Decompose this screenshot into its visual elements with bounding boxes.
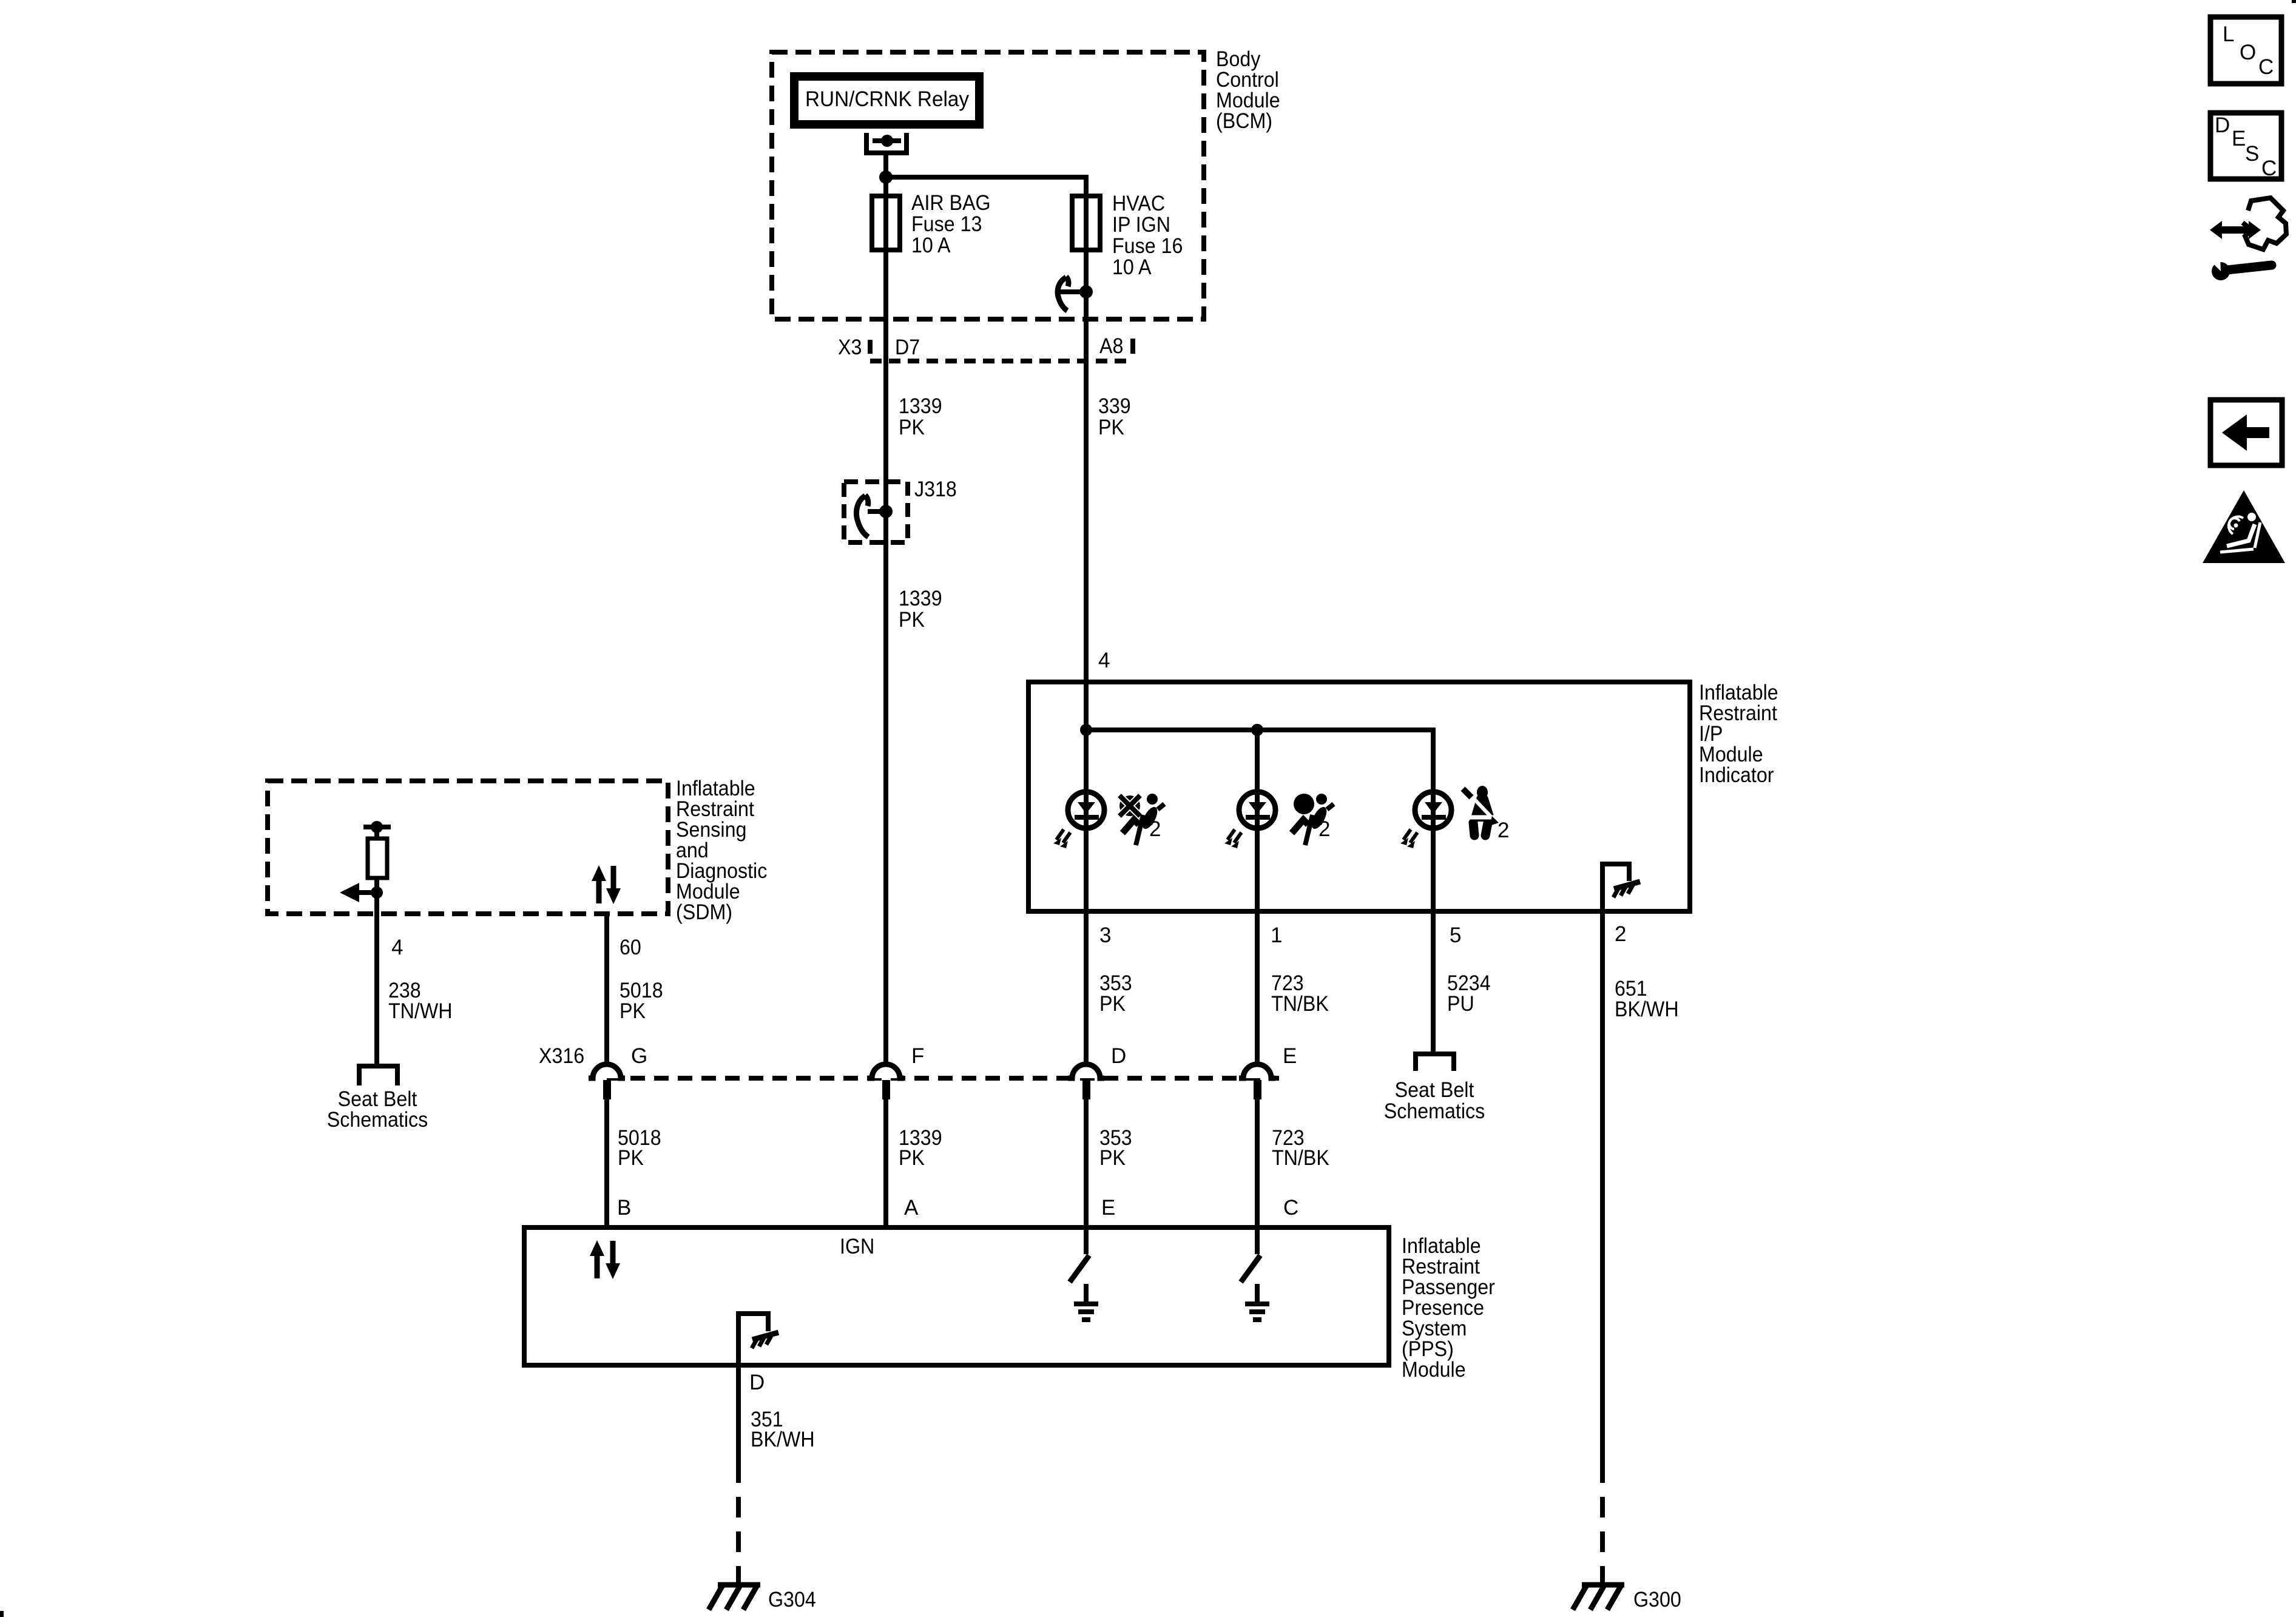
svg-text:TN/BK: TN/BK — [1272, 1146, 1329, 1170]
wire label 1339 PK (lower) — [899, 587, 942, 632]
switch (PPS pin C) — [1255, 1227, 1260, 1254]
icon warning triangle — [2203, 490, 2285, 563]
connector bulb G — [593, 1064, 621, 1078]
svg-text:Seat Belt: Seat Belt — [1395, 1078, 1474, 1102]
svg-text:X3: X3 — [838, 336, 862, 359]
svg-text:D: D — [1111, 1044, 1126, 1068]
svg-text:E: E — [2232, 127, 2246, 150]
wire LED2 branch — [1255, 730, 1260, 911]
icon connector-view outline — [2243, 198, 2286, 249]
svg-text:PK: PK — [899, 608, 925, 632]
wire label 1339 PK — [899, 394, 942, 439]
switch contact hooks (BCM) — [1059, 289, 1086, 294]
svg-text:PK: PK — [1099, 992, 1126, 1016]
svg-text:Indicator: Indicator — [1699, 763, 1774, 787]
fuse F13 AIR BAG — [872, 196, 900, 250]
connector X3 row — [868, 340, 873, 354]
svg-text:G304: G304 — [768, 1588, 816, 1612]
svg-text:D: D — [2215, 113, 2230, 137]
wire G to B — [604, 1099, 609, 1227]
svg-text:G300: G300 — [1633, 1588, 1681, 1612]
svg-text:J318: J318 — [914, 478, 957, 501]
svg-text:B: B — [617, 1196, 631, 1220]
svg-text:E: E — [1283, 1044, 1297, 1068]
module box PPS — [524, 1227, 1389, 1365]
svg-text:PK: PK — [618, 1146, 644, 1170]
wire relay to fuses — [883, 153, 888, 177]
wire labels row 2 — [618, 1126, 661, 1170]
serial data arrows (PPS) — [595, 1255, 600, 1278]
svg-text:4: 4 — [391, 936, 403, 959]
svg-text:2: 2 — [1615, 922, 1626, 946]
icon LOC — [2210, 17, 2281, 84]
icon back arrow — [2210, 400, 2282, 465]
resistor (SDM element) — [363, 825, 391, 829]
svg-text:O: O — [2240, 41, 2256, 64]
page mark bottom-left — [0, 1611, 4, 1617]
svg-text:F: F — [911, 1044, 924, 1068]
junction — [1251, 724, 1263, 736]
ground (PPS pin C) — [1255, 1284, 1260, 1303]
connector bulb E — [1243, 1064, 1271, 1078]
svg-text:L: L — [2223, 22, 2234, 46]
svg-text:10 A: 10 A — [911, 234, 951, 257]
svg-text:(BCM): (BCM) — [1216, 109, 1272, 133]
svg-text:10 A: 10 A — [1112, 255, 1152, 279]
LED D2 — [1239, 792, 1275, 828]
svg-text:Schematics: Schematics — [327, 1108, 428, 1132]
svg-text:BK/WH: BK/WH — [751, 1428, 815, 1451]
svg-text:2: 2 — [1149, 817, 1161, 841]
indicator icon airbag-off — [1119, 794, 1164, 845]
svg-text:60: 60 — [620, 936, 641, 959]
svg-text:PK: PK — [1099, 1146, 1126, 1170]
svg-text:Module: Module — [1402, 1358, 1466, 1382]
svg-text:AIR BAG: AIR BAG — [911, 191, 991, 215]
splice J318 — [844, 482, 908, 542]
svg-text:1: 1 — [1271, 923, 1282, 947]
fuse F16 HVAC — [1084, 196, 1089, 361]
page mark top-right — [2292, 0, 2296, 3]
svg-text:X316: X316 — [539, 1044, 584, 1068]
junction — [879, 170, 893, 184]
wire 5234 to off-page — [1431, 911, 1436, 1052]
serial data arrows (SDM) — [596, 880, 602, 903]
svg-text:TN/WH: TN/WH — [388, 999, 453, 1023]
wire F to A — [883, 1099, 888, 1227]
relay RUN/CRNK — [794, 76, 979, 124]
svg-text:2: 2 — [1497, 819, 1509, 842]
module label indicator — [1699, 681, 1778, 787]
wire label 339 PK — [1098, 394, 1131, 439]
wire 339 through indicator / LED1 branch — [1084, 361, 1089, 911]
wire 351 BK/WH — [736, 1365, 741, 1462]
svg-text:G: G — [631, 1044, 647, 1068]
ground G304 — [718, 1582, 760, 1588]
svg-text:D: D — [749, 1371, 765, 1394]
svg-text:Fuse 13: Fuse 13 — [911, 212, 982, 236]
wire D to E — [1084, 1099, 1089, 1227]
svg-text:HVAC: HVAC — [1112, 192, 1165, 215]
svg-text:1339: 1339 — [899, 587, 942, 610]
svg-text:PK: PK — [899, 416, 925, 439]
connector X316 row — [607, 1076, 1279, 1081]
wire label 238 TN/WH — [388, 979, 453, 1023]
svg-text:RUN/CRNK Relay: RUN/CRNK Relay — [805, 87, 969, 111]
pin letters above PPS — [617, 1196, 1298, 1220]
ground (indicator internal) — [1602, 864, 1629, 911]
svg-text:TN/BK: TN/BK — [1271, 992, 1329, 1016]
wire label 651 BK/WH — [1615, 977, 1679, 1021]
svg-text:PK: PK — [620, 999, 646, 1023]
bus wire — [1086, 730, 1433, 911]
wire 5018 upper — [604, 914, 609, 1064]
svg-text:(SDM): (SDM) — [676, 900, 732, 924]
wire 1339 PK to X316 F — [883, 361, 888, 1064]
module box BCM — [772, 52, 1204, 319]
module box SDM — [268, 781, 668, 914]
wire 651 to G300 — [1600, 911, 1605, 1462]
off-page connector seat belt (left) — [359, 1066, 397, 1085]
arrow (SDM output) — [359, 890, 377, 895]
svg-text:2: 2 — [1319, 817, 1330, 841]
svg-text:IGN: IGN — [840, 1235, 874, 1258]
ground G300 — [1582, 1582, 1624, 1588]
module label PPS — [1402, 1234, 1495, 1382]
svg-text:3: 3 — [1099, 923, 1111, 947]
icon connector-view arrow — [2210, 221, 2261, 239]
wire 238 TN/WH — [374, 893, 379, 1064]
svg-text:339: 339 — [1098, 394, 1131, 418]
icon DESC — [2210, 113, 2281, 179]
module box indicator — [1028, 682, 1690, 911]
svg-text:4: 4 — [1098, 649, 1110, 672]
connector labels — [539, 1044, 1297, 1068]
junction — [1080, 724, 1092, 736]
indicator icon seat belt — [1463, 786, 1509, 842]
wire fuse13 branch (1339 PK) — [883, 177, 888, 361]
indicator icon airbag — [1292, 794, 1334, 845]
svg-text:1339: 1339 — [899, 394, 942, 418]
svg-text:5: 5 — [1450, 923, 1461, 947]
off-page connector seat belt (right) — [1416, 1054, 1454, 1071]
svg-text:BK/WH: BK/WH — [1615, 998, 1679, 1021]
svg-text:A: A — [904, 1196, 919, 1220]
svg-text:C: C — [2261, 157, 2277, 180]
svg-text:PK: PK — [899, 1146, 925, 1170]
svg-text:E: E — [1101, 1196, 1115, 1220]
svg-text:IP IGN: IP IGN — [1112, 213, 1170, 237]
ground (PPS internal pin D) — [738, 1314, 768, 1365]
icon wrench — [2227, 265, 2272, 270]
wire label 723 TN/BK — [1271, 971, 1329, 1016]
wire to fuse 16 — [886, 177, 1086, 196]
svg-text:C: C — [1283, 1196, 1298, 1220]
connector bulb D — [1072, 1064, 1100, 1078]
svg-text:D7: D7 — [895, 336, 920, 359]
wire E to C — [1255, 1099, 1260, 1227]
connector bulb F — [872, 1064, 900, 1078]
svg-text:PU: PU — [1447, 992, 1474, 1016]
switch (PPS pin E) — [1084, 1227, 1089, 1254]
module label BCM — [1216, 47, 1280, 133]
svg-text:PK: PK — [1098, 416, 1124, 439]
svg-text:A8: A8 — [1099, 334, 1123, 358]
LED D1 — [1068, 792, 1104, 828]
wire label 5018 PK — [620, 979, 663, 1023]
svg-text:Schematics: Schematics — [1384, 1099, 1485, 1123]
relay contact — [866, 133, 907, 153]
module label SDM — [676, 777, 767, 924]
wire label 5234 PU — [1447, 971, 1491, 1016]
svg-text:Fuse 16: Fuse 16 — [1112, 234, 1183, 258]
svg-text:C: C — [2258, 55, 2274, 79]
LED D3 — [1415, 792, 1451, 828]
pin labels below indicator — [1099, 922, 1626, 947]
wire label 353 PK — [1099, 971, 1132, 1016]
svg-text:S: S — [2245, 142, 2259, 166]
ground (PPS pin E) — [1084, 1284, 1089, 1303]
